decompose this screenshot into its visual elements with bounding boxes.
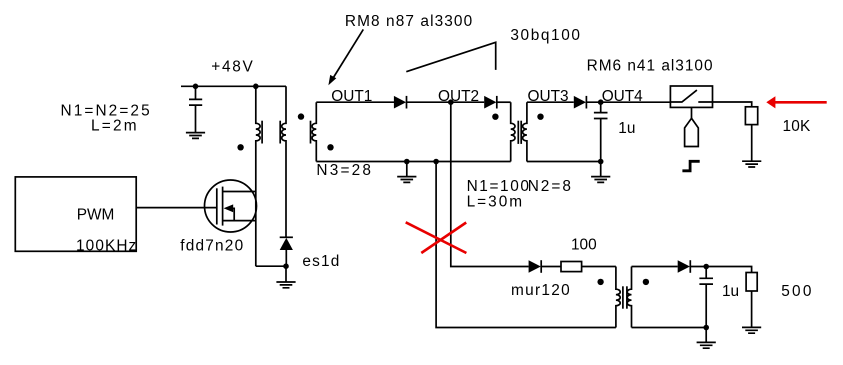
svg-text:100: 100 [571,237,597,254]
svg-text:OUT4: OUT4 [602,88,643,105]
svg-text:L=30m: L=30m [467,193,524,210]
transformer T1 winding N2 [280,86,286,237]
svg-text:OUT1: OUT1 [331,88,372,105]
diode D2 [484,96,497,109]
wire T3 secondary bottom [632,327,707,329]
T3 phase dot right [643,279,649,285]
diode D6 mur120 [529,260,542,273]
transistor Q1 fdd7n20 [205,180,257,266]
svg-text:1u: 1u [722,283,739,300]
wire D1 to OUT2 [407,101,485,103]
transformer T1 winding N1 [256,86,262,191]
diode D1 [394,96,407,109]
svg-text:es1d: es1d [302,253,340,270]
svg-text:RM8 n87 al3300: RM8 n87 al3300 [345,13,473,30]
svg-text:N3=28: N3=28 [316,162,373,179]
annotation line to diodes [406,42,495,71]
ground under es1d [276,266,295,288]
T2 phase dot left [492,114,498,120]
red X mark [406,222,467,253]
wire D3 to relay [586,101,670,103]
svg-text:10K: 10K [783,118,812,135]
wire OUT1 loop bottom [316,161,510,163]
ground under C2 [591,162,610,183]
T1 phase dot N1 [237,144,243,150]
junction C3 top [703,264,709,270]
red probe arrow [766,96,826,108]
relay RM6 box [670,86,712,107]
svg-text:N2=8: N2=8 [528,178,573,195]
PWM box [15,177,136,251]
T3 phase dot left [597,279,603,285]
wire D2 to T2 [497,101,511,103]
relay actuator capsule [685,107,699,146]
svg-text:1u: 1u [618,120,635,137]
capacitor C2 1u [594,102,608,161]
ground under C3 [697,328,716,349]
ground OUT1 loop [397,162,416,183]
ground under 10K [742,161,761,167]
svg-text:L=2m: L=2m [91,118,139,135]
wire source to es1d node [256,265,286,267]
T1 phase dot N3 [327,144,333,150]
svg-text:mur120: mur120 [511,282,571,299]
junction C3 bottom [703,325,709,331]
wire T3 to D4 [632,266,678,268]
ground under input cap [186,133,205,139]
wire PWM to gate [136,207,217,209]
wire OUT3 loop bottom [527,161,601,163]
transformer T1 winding N3 [311,102,317,161]
wire T2 to D3 [527,101,574,103]
T1 phase dot N2 [298,113,304,119]
svg-text:OUT2: OUT2 [438,88,479,105]
junction bottom to primary loop [433,159,439,165]
junction bottom ground tap [404,159,410,165]
transformer T2 left winding [511,102,519,161]
wire bottom loop left [436,162,616,328]
svg-text:500: 500 [781,283,813,300]
svg-text:100KHz: 100KHz [76,237,137,254]
svg-text:OUT3: OUT3 [528,88,569,105]
svg-text:30bq100: 30bq100 [510,27,581,44]
resistor 10K [745,107,757,125]
annotation arrow to T1 [328,29,363,85]
relay step waveform symbol [682,161,699,171]
diode D5 es1d [280,237,293,266]
wire R100 to T3 [582,266,616,268]
junction C2 bottom [598,159,604,165]
resistor 500 [746,273,757,292]
diode D4 [678,260,691,273]
wire D6 to R100 [541,266,561,268]
wire OUT1 top left [316,101,394,103]
junction rail/input cap [193,84,199,90]
wire D4 to R500 [690,267,751,273]
svg-text:+48V: +48V [211,58,254,75]
junction node OUT4 [598,99,604,105]
capacitor C3 1u [699,267,713,328]
transformer T2 right winding [521,102,527,161]
junction es1d node [283,263,289,269]
transformer T3 left winding [616,267,623,328]
wire +48V rail [181,85,286,87]
wire 10K to ground [751,125,753,162]
diode D3 [574,96,587,109]
svg-text:RM6 n41 al3100: RM6 n41 al3100 [587,57,714,74]
junction rail/T1 primary [253,84,259,90]
transformer T3 right winding [627,267,632,328]
wire relay to 10K [713,102,752,107]
wire R500 to ground [751,291,753,327]
wire OUT2 down to primary [451,102,529,266]
svg-text:fdd7n20: fdd7n20 [180,237,244,254]
ground under R500 [742,327,761,333]
svg-text:PWM: PWM [77,207,115,224]
T2 phase dot right [537,114,543,120]
resistor 100 [561,262,582,272]
junction node OUT2 [448,99,454,105]
capacitor input cap [189,86,202,132]
